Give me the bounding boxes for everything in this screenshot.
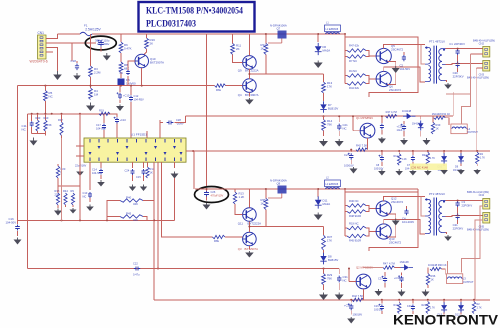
svg-text:R22: R22	[422, 304, 427, 307]
resistor R8b horiz	[212, 235, 242, 243]
ground under C21	[335, 139, 344, 147]
wire rail2 to xfmr	[344, 188, 346, 192]
CN1 pin wires	[46, 34, 96, 71]
diode D5	[118, 73, 137, 86]
ground pin g	[171, 162, 179, 178]
cap C3 22P/3KV	[456, 200, 473, 208]
wire transformer gnd link	[446, 93, 470, 95]
svg-text:C6: C6	[120, 71, 124, 75]
wire x206 vertical	[206, 34, 208, 186]
svg-text:Q3: Q3	[238, 247, 242, 251]
resistor Rp2	[422, 151, 435, 176]
svg-text:C18: C18	[71, 59, 77, 63]
ground under D11	[314, 213, 323, 221]
resistor R42b 7.5K	[352, 294, 364, 302]
svg-text:1N4148 R31 1K: 1N4148 R31 1K	[432, 112, 451, 116]
resistor R5	[44, 86, 53, 101]
cap C22u	[75, 162, 87, 176]
svg-text:C24: C24	[125, 169, 130, 173]
svg-text:R44 62k: R44 62k	[349, 86, 360, 90]
cap C34	[394, 272, 404, 288]
resistor R30 1K horiz	[428, 263, 447, 271]
svg-text:1.7K: 1.7K	[480, 156, 485, 159]
resistor R39 1K	[431, 116, 441, 134]
wire Q11Q3 node right	[248, 209, 266, 227]
U1 designator	[131, 133, 147, 137]
svg-text:OUTPUT: OUTPUT	[463, 280, 474, 284]
connector CN4	[467, 190, 490, 209]
highlight ellipse 1	[85, 36, 116, 50]
resistor R13 17K	[266, 74, 333, 93]
ground under R14	[319, 139, 328, 147]
ground PT1	[444, 81, 452, 89]
PT2 secondary wires	[446, 201, 483, 217]
resistor R3 2.2M	[89, 34, 101, 77]
resistor R34 1K	[261, 33, 268, 54]
cap C32	[407, 300, 415, 314]
wire Q5 collector	[384, 45, 425, 49]
resistor R43b	[345, 69, 366, 77]
svg-text:22K: 22K	[55, 193, 60, 197]
svg-text:C36 NC 4148: C36 NC 4148	[411, 165, 428, 169]
svg-text:R4 NC: R4 NC	[349, 69, 357, 73]
wire C19 down	[100, 47, 102, 52]
svg-text:C13: C13	[83, 191, 88, 195]
wire y151 long	[193, 150, 490, 152]
resistor R40 34K	[107, 196, 143, 221]
wire left bus2 down	[27, 114, 29, 268]
svg-text:B4B-XH-A(LF)(SN): B4B-XH-A(LF)(SN)	[473, 38, 495, 42]
IC U1 body	[76, 138, 186, 162]
svg-text:100/16V: 100/16V	[353, 313, 363, 317]
svg-text:22uF/16V: 22uF/16V	[75, 164, 87, 168]
svg-text:R11: R11	[394, 155, 399, 158]
cap C31 NC	[337, 269, 348, 291]
svg-text:1K: 1K	[261, 202, 265, 206]
transistor Q10	[135, 49, 164, 86]
cap C35	[378, 115, 386, 143]
svg-text:BLB15V: BLB15V	[328, 107, 338, 111]
diode Dp1	[438, 151, 448, 175]
resistor R10	[44, 114, 52, 131]
diode D18	[397, 109, 416, 119]
svg-text:4.7M: 4.7M	[391, 110, 397, 114]
wire pin down x194	[193, 151, 195, 189]
wire x345 down	[344, 34, 346, 84]
wire R40 right	[143, 201, 154, 221]
svg-text:NC: NC	[83, 195, 87, 199]
wire y116 long	[186, 115, 454, 117]
title block frame	[139, 2, 255, 32]
wire y268 long	[28, 268, 340, 270]
svg-text:22P/3KV: 22P/3KV	[453, 74, 464, 78]
transistor Q3	[238, 221, 258, 251]
transistor Q2	[356, 266, 373, 289]
resistor R6a column	[119, 34, 132, 53]
ground cluster	[30, 138, 38, 146]
wire Q4 emitter gnd	[248, 92, 250, 96]
inductor L2	[325, 177, 341, 190]
wire left bus down	[17, 86, 19, 221]
transistor Q12	[376, 197, 403, 217]
svg-text:N-DFN4106A: N-DFN4106A	[270, 24, 287, 28]
svg-text:22P/3KV: 22P/3KV	[454, 42, 465, 46]
wire bottom loop	[345, 189, 418, 251]
fuse F1	[80, 24, 101, 36]
svg-text:C15: C15	[136, 175, 141, 179]
svg-text:R42 7.5K: R42 7.5K	[352, 294, 363, 298]
svg-text:1M: 1M	[94, 93, 99, 97]
connector CN1	[38, 31, 47, 59]
svg-text:C17: C17	[96, 123, 101, 127]
resistor R11 2K	[231, 34, 242, 54]
wire Q6 collector	[384, 67, 425, 82]
inductor L1	[325, 22, 341, 35]
svg-text:79K: 79K	[327, 123, 332, 127]
svg-text:B4B-XH-A(LF)(SN): B4B-XH-A(LF)(SN)	[467, 227, 489, 231]
svg-text:F1: F1	[84, 24, 88, 28]
svg-text:MA2A: MA2A	[323, 202, 331, 206]
svg-text:NC: NC	[343, 127, 347, 131]
svg-text:N-DFN4106A: N-DFN4106A	[270, 179, 287, 183]
wire Q1 base	[352, 115, 360, 131]
ground under C18	[73, 73, 81, 80]
ground PT2	[444, 233, 452, 242]
svg-text:1.7K: 1.7K	[477, 306, 482, 309]
svg-text:MA2A: MA2A	[323, 49, 331, 53]
cap C9 below rail	[116, 86, 130, 111]
svg-text:1.7K: 1.7K	[430, 307, 435, 310]
svg-text:R43: R43	[36, 116, 41, 120]
ground under R29	[319, 293, 328, 301]
mosfet Q7	[268, 24, 287, 44]
highlight ellipse 2 cap C26	[204, 189, 223, 201]
cap C30	[344, 299, 362, 317]
cap C22 on wire	[133, 262, 140, 277]
svg-text:100/16V: 100/16V	[344, 164, 354, 168]
resistor R35 1K	[261, 188, 268, 209]
cap C21c 22P/3KV	[453, 207, 464, 230]
wire IC pins down	[154, 162, 174, 269]
svg-text:17K: 17K	[327, 85, 332, 89]
svg-text:1K: 1K	[150, 171, 153, 175]
svg-text:BXT2907A: BXT2907A	[245, 93, 259, 97]
wire x155 down	[154, 220, 490, 299]
resistor R9	[71, 189, 75, 205]
svg-text:R17: R17	[58, 118, 63, 122]
cap C14	[92, 162, 105, 186]
svg-text:1K: 1K	[261, 47, 265, 51]
svg-text:15K: 15K	[47, 123, 52, 127]
wire rail to xfmr	[344, 33, 346, 37]
diode D7 zener	[320, 93, 338, 113]
resistor R29 79K	[322, 269, 333, 291]
ground Q4	[245, 98, 254, 105]
ground under R4	[86, 103, 95, 112]
svg-text:R8k: R8k	[214, 239, 220, 243]
svg-text:Q9: Q9	[238, 69, 242, 73]
transformer PT2	[425, 192, 446, 236]
wire Q1 emitter	[367, 138, 369, 150]
wire CN3 pin2 down	[476, 67, 483, 69]
resistor R44b	[63, 189, 68, 205]
svg-text:PLCD0317403: PLCD0317403	[146, 19, 196, 29]
svg-text:R6k: R6k	[216, 88, 222, 92]
resistor R31 1K horiz	[432, 112, 451, 120]
cap C15	[125, 162, 137, 191]
cap C1 22P/3KV	[449, 42, 465, 55]
resistor R17	[58, 114, 63, 138]
wire y117 junction	[323, 115, 325, 117]
wire startup rail	[18, 85, 215, 87]
watermark KENOTRONTV	[393, 313, 499, 328]
wire emitters join	[388, 62, 396, 85]
svg-text:0.47K: 0.47K	[124, 47, 132, 51]
svg-text:10uF: 10uF	[397, 128, 403, 132]
Q10 base wire	[120, 61, 135, 86]
ground under C31	[335, 293, 344, 301]
svg-text:1N4148: 1N4148	[412, 123, 421, 126]
svg-text:PT2 48T2LV: PT2 48T2LV	[429, 192, 445, 196]
svg-text:PT1 48T2LV: PT1 48T2LV	[429, 40, 445, 44]
svg-text:BXT2222A: BXT2222A	[245, 69, 259, 73]
cap C38	[397, 121, 407, 137]
resistor R45b	[345, 228, 377, 243]
svg-text:R9: R9	[71, 189, 75, 193]
svg-text:+C10: +C10	[123, 94, 130, 98]
svg-text:R7 NC: R7 NC	[349, 59, 357, 63]
mosfet Q8	[268, 179, 287, 199]
wire x453 vert	[452, 92, 454, 116]
connector CN3	[467, 61, 490, 80]
ground under R36	[422, 290, 430, 297]
transistor Q9	[233, 34, 259, 73]
resistor R13b 1.2K	[233, 189, 244, 204]
resistor R36 1K	[426, 268, 436, 289]
svg-text:Q11: Q11	[238, 222, 244, 226]
PT1 mid tap	[421, 45, 425, 64]
ground under C37	[375, 289, 383, 296]
svg-text:104-50V: 104-50V	[400, 67, 411, 71]
ground under C16	[14, 238, 22, 245]
cap C13 NC	[83, 162, 94, 211]
resistor R45 34K	[107, 212, 143, 223]
svg-text:KENOTRONTV: KENOTRONTV	[393, 313, 499, 328]
transistor Q5	[376, 44, 403, 64]
svg-text:104-200V: 104-200V	[402, 220, 414, 224]
svg-text:104-50V: 104-50V	[92, 171, 102, 175]
transistor Q13	[376, 224, 401, 245]
diode D18b	[395, 260, 414, 270]
wire r-cluster	[58, 186, 80, 208]
ground r-cluster	[54, 208, 77, 216]
svg-text:NC: NC	[343, 279, 347, 283]
svg-text:470uF/10V: 470uF/10V	[211, 193, 224, 197]
cap C21 NC	[337, 115, 348, 136]
svg-text:U1 FF15D1: U1 FF15D1	[131, 133, 147, 137]
wire right bus A	[462, 54, 471, 124]
cap C10 pol	[110, 114, 126, 138]
cap C18	[71, 43, 80, 70]
svg-text:22P/3KV: 22P/3KV	[462, 203, 473, 207]
resistor R22b	[422, 300, 436, 314]
svg-text:OUTPUT: OUTPUT	[467, 130, 478, 134]
svg-text:2SC4672: 2SC4672	[391, 200, 403, 204]
svg-text:1N4148: 1N4148	[400, 260, 410, 264]
wire cluster rail	[28, 113, 111, 115]
wire IC pin top a	[147, 120, 160, 138]
resistor R46	[345, 199, 366, 207]
resistor R30b 4.7M	[364, 262, 395, 270]
svg-text:R44: R44	[63, 189, 68, 193]
svg-text:C27: C27	[344, 153, 349, 157]
cap C20 22P/3KV	[453, 55, 464, 78]
inductor L3 output	[442, 269, 474, 284]
wire AC rail top	[58, 33, 346, 35]
diode Dp2	[453, 151, 465, 175]
svg-text:R48 910R: R48 910R	[349, 214, 361, 218]
svg-text:104-R5V: 104-R5V	[134, 98, 145, 102]
PT1 secondary wires	[446, 49, 483, 65]
ground Q12Q13 emitters	[392, 219, 400, 226]
svg-text:R19: R19	[99, 109, 104, 113]
svg-text:2SC4672: 2SC4672	[389, 88, 401, 92]
svg-text:R47: R47	[383, 262, 388, 266]
diode D19 vert	[412, 116, 424, 136]
wire r17 down	[61, 138, 63, 220]
ground under C27	[350, 167, 358, 174]
svg-text:C22: C22	[133, 262, 138, 266]
svg-text:104-50V: 104-50V	[6, 221, 17, 225]
cap Cp1	[374, 151, 384, 170]
wire right bus B	[475, 68, 477, 151]
transformer PT1	[425, 40, 446, 84]
PT2 mid tap	[421, 197, 425, 217]
wire Q3 emitter gnd	[248, 246, 250, 250]
ground Cp1	[378, 170, 386, 176]
svg-text:1.7K: 1.7K	[430, 157, 435, 160]
cap C19b	[374, 300, 384, 314]
svg-text:Q4: Q4	[238, 93, 242, 97]
diode D8 zener	[320, 250, 338, 264]
ellipse 2 outline	[195, 187, 229, 203]
svg-text:2SC4672: 2SC4672	[391, 48, 403, 52]
connector CN5	[467, 213, 490, 232]
svg-text:34K: 34K	[133, 218, 138, 222]
svg-text:2SC4672: 2SC4672	[389, 241, 401, 245]
resistor R2b	[472, 300, 482, 314]
svg-text:+C10: +C10	[120, 118, 127, 122]
svg-text:CN1: CN1	[38, 31, 45, 35]
svg-text:C19 400v: C19 400v	[97, 42, 110, 46]
ground Q5Q6 emitters	[392, 66, 400, 73]
resistor R48	[345, 206, 377, 219]
wire Q2 emitter	[363, 289, 365, 300]
svg-text:+C30: +C30	[344, 304, 351, 308]
svg-text:1N4148: 1N4148	[402, 109, 412, 113]
ground under C38	[400, 138, 408, 145]
svg-text:Q1 MPS8599: Q1 MPS8599	[356, 116, 373, 120]
cap C28	[160, 118, 184, 126]
resistor R16	[145, 34, 156, 49]
cap C15b	[136, 162, 147, 191]
svg-text:104-50V: 104-50V	[96, 127, 106, 131]
ground under D19	[423, 138, 431, 145]
svg-text:R18: R18	[55, 189, 60, 193]
svg-text:R41: R41	[394, 304, 399, 307]
svg-text:R45: R45	[126, 212, 132, 216]
diode D11	[315, 188, 330, 209]
wire x447 vert	[447, 261, 449, 274]
cap C4	[402, 206, 414, 224]
resistor R14 79K	[322, 116, 333, 136]
wire y300 dots	[381, 299, 475, 301]
wire CN4 pin2	[462, 206, 483, 273]
wire y151 stub parts	[381, 150, 478, 152]
label C36 NC	[410, 164, 447, 171]
svg-text:C1: C1	[449, 42, 453, 46]
bulk cap C19 in ellipse	[95, 39, 110, 47]
svg-text:R19 NC: R19 NC	[349, 222, 359, 226]
wire C28 step	[175, 116, 186, 122]
svg-text:C12: C12	[134, 94, 139, 98]
transistor Q6	[376, 71, 401, 92]
svg-text:NC: NC	[49, 95, 53, 99]
resistor R30 4.7M	[386, 110, 397, 118]
IC right pin wire	[186, 150, 194, 152]
svg-text:NC: NC	[22, 128, 26, 132]
cap C11 NC	[22, 114, 34, 134]
svg-text:1K: 1K	[436, 126, 439, 130]
cap Cp2	[405, 151, 417, 176]
cap C2	[400, 52, 411, 71]
svg-text:W20S4T0-6: W20S4T0-6	[30, 60, 48, 64]
wire cluster bottom	[32, 131, 46, 135]
svg-text:34K: 34K	[133, 202, 138, 206]
ground under D6	[314, 61, 323, 69]
svg-text:2K: 2K	[236, 47, 240, 51]
svg-text:1.2K: 1.2K	[239, 195, 245, 199]
svg-text:R46 NC: R46 NC	[349, 199, 359, 203]
wire x345 down2	[344, 189, 346, 236]
svg-text:KLC-TM1508 P/N•34002054: KLC-TM1508 P/N•34002054	[146, 6, 243, 16]
resistor Rp1	[394, 151, 407, 176]
svg-text:C14: C14	[92, 168, 97, 172]
wire CN5 pin2 down	[475, 220, 483, 300]
CN1 label W20S4T0-6	[30, 60, 48, 64]
cap C27	[344, 149, 354, 168]
svg-text:+C38: +C38	[397, 125, 404, 129]
svg-text:R10: R10	[44, 116, 49, 120]
svg-text:BXT2907A: BXT2907A	[245, 247, 259, 251]
ground under C30	[347, 317, 355, 324]
wire rail2	[195, 188, 418, 190]
svg-text:22P/3KV: 22P/3KV	[453, 226, 464, 230]
svg-text:2.5A/125V: 2.5A/125V	[85, 28, 101, 32]
diode D10b	[438, 300, 448, 317]
resistor R21	[146, 162, 155, 178]
wire x167 down	[162, 162, 213, 237]
cap C37	[378, 272, 387, 288]
resistor R19 horiz	[80, 109, 110, 116]
svg-text:4.7M: 4.7M	[389, 262, 395, 266]
diode D9b	[455, 300, 464, 317]
wire emitters join2	[388, 214, 396, 237]
svg-text:L2 E2B0608: L2 E2B0608	[326, 184, 339, 186]
svg-text:C28: C28	[176, 118, 181, 122]
svg-text:R22: R22	[422, 154, 427, 157]
resistor R18 cluster	[55, 189, 60, 205]
